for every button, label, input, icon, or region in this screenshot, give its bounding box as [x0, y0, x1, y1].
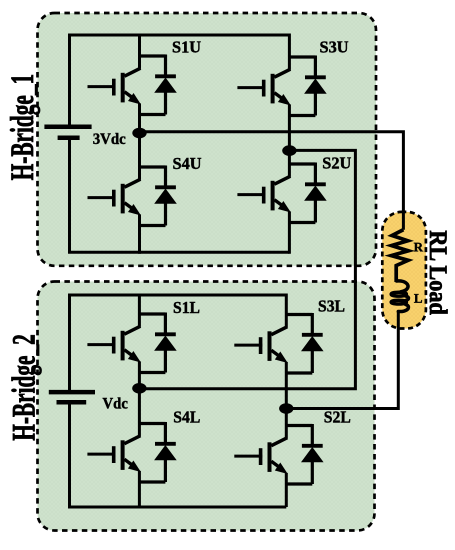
bridge 2 right leg wire: [285, 294, 288, 508]
inductor flat loop 1: [391, 292, 406, 296]
IGBT switch S4L with antiparallel diode: [87, 422, 176, 482]
inductor flat loop 2: [391, 300, 406, 304]
RL Load enclosure: [382, 212, 426, 329]
inductor turn 1: [397, 281, 408, 292]
bridge 2 rails wire: [70, 295, 287, 507]
IGBT switch S2L with antiparallel diode: [234, 424, 323, 484]
battery V2 Vdc short plate: [57, 400, 87, 405]
wire bridge1 left output to load top: [140, 132, 404, 230]
IGBT switch S1L with antiparallel diode: [87, 313, 176, 373]
svg-text:S3L: S3L: [318, 297, 345, 316]
bridge 2 left leg wire: [138, 294, 141, 508]
node bridge2 right output: [279, 403, 293, 414]
node bridge2 left output: [132, 383, 146, 394]
bridge 1 right leg wire: [288, 34, 291, 254]
wire bridge1 right output to bridge2 left output (cascade): [139, 150, 355, 388]
svg-text:R: R: [414, 239, 424, 254]
svg-text:S2L: S2L: [324, 408, 351, 427]
svg-text:3Vdc: 3Vdc: [93, 131, 126, 148]
svg-text:S2U: S2U: [322, 154, 351, 173]
wire bridge2 right output to load bottom: [286, 313, 398, 409]
resistor R zigzag: [391, 230, 408, 282]
svg-text:RL Load: RL Load: [424, 230, 453, 315]
svg-text:H-Bridge_2: H-Bridge_2: [7, 334, 43, 441]
battery V1 3Vdc short plate: [58, 136, 80, 141]
svg-text:S4U: S4U: [173, 154, 202, 173]
svg-text:H-Bridge_1: H-Bridge_1: [5, 74, 41, 181]
svg-text:Vdc: Vdc: [103, 396, 128, 413]
H-Bridge_1 enclosure box: [38, 13, 377, 266]
IGBT switch S3U with antiparallel diode: [237, 56, 326, 116]
bridge 1 rails wire: [70, 35, 290, 252]
IGBT switch S3L with antiparallel diode: [234, 313, 323, 373]
battery V2 Vdc long plate: [49, 390, 95, 395]
svg-text:S3U: S3U: [320, 38, 349, 57]
node bridge1 right output: [282, 145, 296, 156]
bridge 1 left leg wire: [138, 34, 141, 254]
battery V1 3Vdc long plate: [44, 124, 91, 129]
svg-text:L: L: [414, 291, 423, 306]
IGBT switch S2U with antiparallel diode: [237, 163, 326, 223]
inductor turn 2: [406, 296, 409, 300]
svg-text:S1U: S1U: [172, 38, 201, 57]
IGBT switch S4U with antiparallel diode: [88, 166, 177, 226]
inductor L coil: [391, 281, 408, 312]
inductor turn 3: [398, 304, 408, 311]
H-Bridge_2 enclosure box: [38, 282, 375, 531]
node bridge1 left output: [132, 128, 146, 139]
svg-text:S1L: S1L: [173, 298, 200, 317]
svg-text:S4L: S4L: [173, 408, 200, 427]
IGBT switch S1U with antiparallel diode: [88, 55, 177, 115]
